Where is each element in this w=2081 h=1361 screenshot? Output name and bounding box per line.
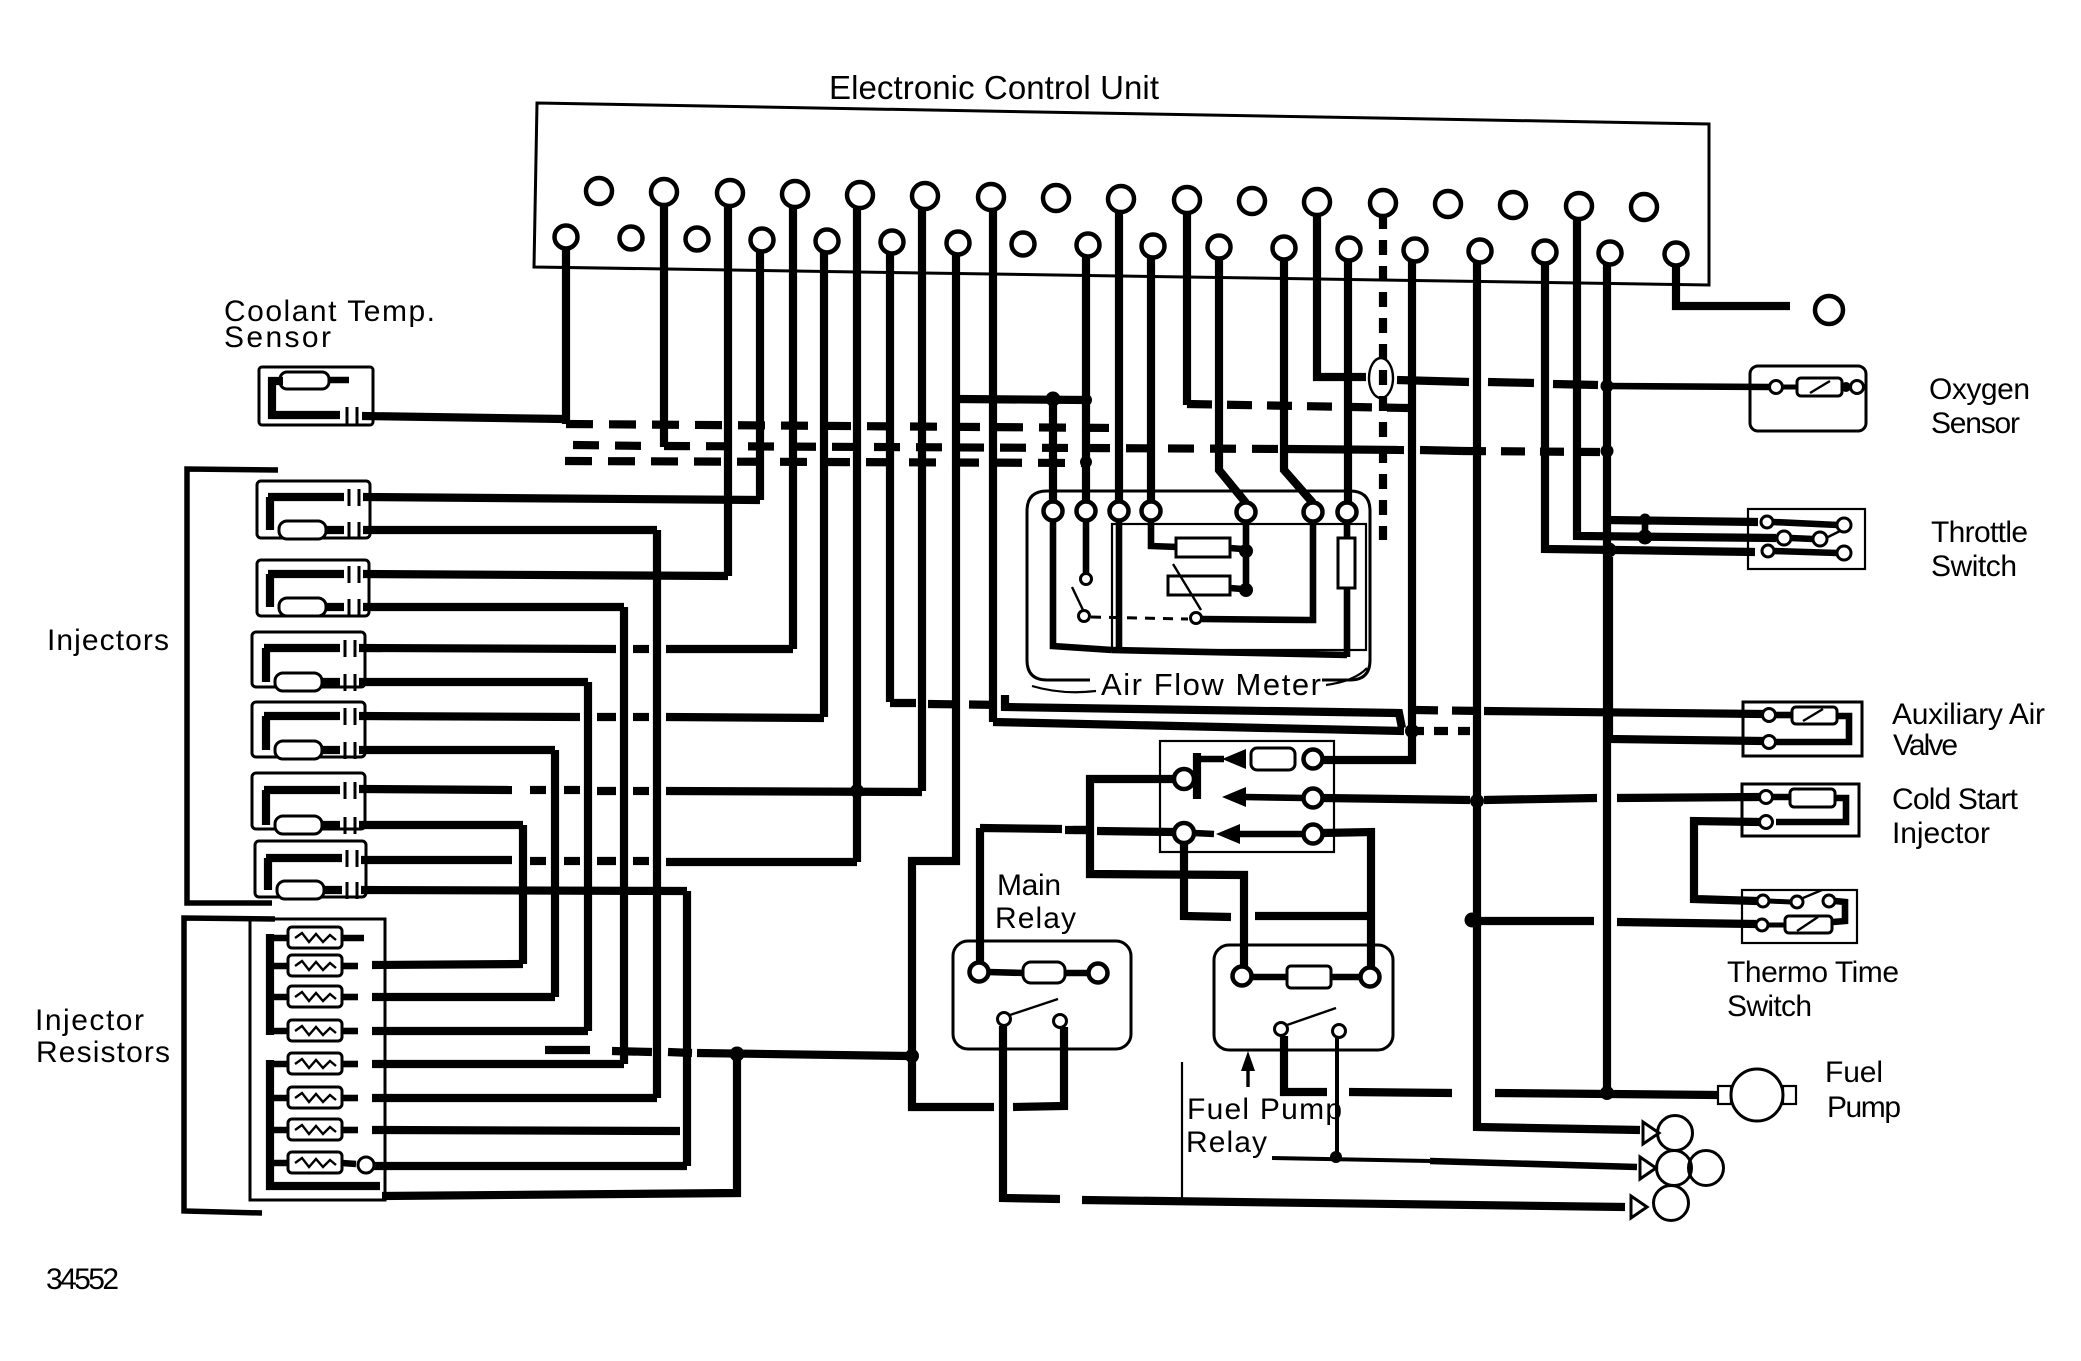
AFM internal: pin1 down leg [1053, 520, 1112, 650]
injector 6 box [255, 841, 366, 897]
aux valve pill slash [1803, 709, 1823, 721]
AFM internal: pill2 with wiper [1168, 576, 1230, 595]
thermo row1 pin [1757, 895, 1769, 907]
connector block below AFM (arrow box) [1160, 741, 1334, 852]
fuel pump relay coil right wire [1331, 974, 1362, 981]
thermo pill slash [1797, 917, 1818, 931]
throttle row2 wire [1791, 538, 1813, 539]
junction: dashed bus 447 end [1601, 445, 1614, 458]
AFM pin7 [1338, 503, 1357, 522]
oxygen sensor element pill [1797, 378, 1842, 396]
wire: ECU pin B10 riser to air flow meter pin4 [1147, 257, 1155, 502]
AFM pin2 [1077, 502, 1096, 521]
arrow box row3 arrow [1216, 824, 1240, 844]
wire: ECU pin T16 riser to throttle switch row2 [1577, 217, 1776, 538]
throttle row1 wire [1773, 522, 1838, 525]
wire: R4 row to injector3 drop [372, 1027, 588, 1035]
oxygen sensor pill slash [1810, 381, 1830, 393]
distribution circle 2 [1657, 1151, 1692, 1186]
svg-text:Resistors: Resistors [36, 1036, 170, 1069]
fuel pump relay box [1214, 945, 1393, 1050]
aux valve pin1 [1763, 709, 1776, 722]
arrowhead 1 [1643, 1122, 1659, 1144]
junction: AFM pin1 branch [1046, 392, 1061, 407]
arrow box row3 right circle [1304, 825, 1323, 844]
junction bus 463 at AFM pin2 riser [1080, 456, 1092, 468]
air flow meter outer box [1027, 491, 1370, 680]
wire: row2 to cold start injector row [1322, 797, 1760, 800]
thermo thick corner wire [1833, 901, 1845, 922]
wire: ECU pin T4 riser to injector3 top row [789, 207, 797, 649]
coolant temp sensor box [259, 367, 373, 425]
wire: dashed riser from ECU pin T13 [1379, 214, 1387, 540]
air flow meter inner box [1112, 524, 1366, 650]
fuel pump relay switch blade [1287, 1008, 1336, 1025]
dashed bus 463 [565, 461, 1083, 463]
wire: ECU pin B16 riser to throttle switch row3 [1545, 263, 1755, 552]
throttle row3 right contact [1837, 546, 1851, 560]
wire: ECU pin B4 riser to injector1 top row [756, 251, 764, 500]
dashed feed bus 1056 [545, 1050, 908, 1056]
AFM internal: pin5 column with junction dots [1243, 521, 1250, 592]
main relay coil right wire [1065, 970, 1090, 977]
resistor rail group 1 [266, 934, 274, 1035]
thermo element pill [1785, 916, 1832, 933]
fuel pump right nub [1783, 1086, 1796, 1104]
svg-text:Main: Main [997, 869, 1061, 902]
svg-text:Throttle: Throttle [1931, 516, 2028, 549]
junction: fuel pump feed line [1600, 1086, 1614, 1100]
svg-text:Relay: Relay [1186, 1126, 1267, 1159]
auxiliary air valve box [1743, 702, 1862, 756]
AFM internal: pin4 to pill1 [1151, 520, 1178, 547]
oxygen sensor right terminal [1851, 381, 1864, 394]
wire: main relay coil feed corner [980, 828, 1175, 832]
AFM pin5 [1237, 503, 1256, 522]
AFM internal: pin3 leg [1116, 520, 1123, 650]
svg-text:Injector: Injector [1892, 817, 1990, 850]
cold start internal U wire [1773, 794, 1790, 801]
wire: row3 arrow to circle [1238, 831, 1305, 838]
injector 4 box [252, 702, 365, 757]
wire: drop to resistor R8 row [683, 891, 691, 1166]
ECU pins top row [586, 178, 1657, 220]
oxygen sensor wire and dot [1783, 385, 1797, 390]
wire: aux bus solid to aux valve pin1 [1484, 711, 1763, 714]
wire: drop to resistor R2 [519, 825, 527, 964]
injector 2 box [257, 560, 369, 616]
wire: ECU pin T5 riser to injector6 top row [853, 208, 861, 862]
resistor R7 [270, 1119, 358, 1140]
wire: injector6 bottom row [361, 890, 687, 891]
AFM pin4 [1142, 502, 1161, 521]
junction: B14 riser with bus Q [1405, 724, 1419, 738]
resistor R5 [270, 1053, 358, 1074]
wire: resistor box feed drop [382, 1054, 737, 1196]
wire: ECU pin T12 riser with corner to loop [1317, 213, 1366, 377]
wire: ECU pin B12 riser with slant to AFM pin6 [1284, 259, 1313, 503]
wire: relay switch contact2 thin drop [1335, 1037, 1339, 1157]
AFM internal: wiper to pin6 [1202, 521, 1313, 620]
wire: ECU pin B6 riser to auxiliary air dashed bus [886, 253, 894, 702]
label: Air Flow Meter with leaders [1032, 686, 1096, 692]
wire: coolant internal rail [272, 381, 340, 415]
throttle row3 wire [1774, 551, 1838, 553]
injector 6 internals [264, 858, 272, 890]
throttle switch box [1748, 509, 1865, 569]
arrow box row1 element pill [1251, 748, 1295, 770]
thermo row2 pin [1756, 919, 1768, 931]
main relay box [953, 941, 1131, 1049]
svg-text:Sensor: Sensor [1931, 407, 2020, 440]
wire: R3 row to injector4 drop [372, 993, 555, 1001]
main relay switch blade [1010, 999, 1058, 1015]
svg-text:Cold Start: Cold Start [1892, 783, 2019, 816]
wire: ECU pin B13 riser to AFM pin7 [1344, 260, 1352, 503]
thick bus P below AFM [1005, 695, 1402, 728]
junction: T5 riser with injector5 row [850, 784, 864, 798]
throttle row2 right circle [1813, 532, 1827, 546]
wire: aux air valve row2 from throttle junction down [1609, 557, 1763, 741]
arrowhead 3 [1631, 1196, 1647, 1218]
wire: ECU pin T3 riser to injector2 top row [724, 206, 732, 576]
wire: ECU pin B1 riser to coolant bus [562, 249, 570, 424]
wire: row3 stub [1194, 833, 1214, 834]
oxygen sensor feed solid [1607, 386, 1772, 387]
wire: arrow box left pin down-route U [1184, 843, 1231, 917]
auxiliary air dashed bus [890, 699, 916, 707]
svg-text:Injector: Injector [35, 1004, 144, 1037]
junction: B15 riser with thermo row [1465, 913, 1480, 928]
wire: R7 row [372, 1130, 680, 1131]
wire: drop to resistor R3 [551, 750, 559, 997]
throttle row3 pin [1762, 545, 1774, 557]
injector 5 internals [262, 790, 270, 825]
injector 4 internals [262, 716, 270, 750]
cold start pin1 [1760, 791, 1773, 804]
dashed bus 405 right section [1187, 404, 1408, 408]
wire: row3 right corner down to fuel pump relay pin2 [1322, 832, 1371, 968]
fuel pump relay coil wire [1251, 974, 1289, 981]
wire: injector4 bottom row [359, 746, 555, 754]
svg-text:Fuel: Fuel [1825, 1056, 1883, 1089]
wire: row3 left dashed feed [1065, 826, 1090, 834]
wire: injector4 top row to ECU B5 riser [359, 716, 824, 718]
injector 2 internals [266, 574, 274, 607]
junction: bus 408 at AFM pin2 riser [1080, 394, 1092, 406]
fuel pump relay switch contact2 [1333, 1025, 1346, 1038]
oxygen sensor pin [1770, 381, 1783, 394]
resistor R3 [270, 986, 358, 1007]
terminal circle right of ECU [1815, 296, 1843, 324]
AFM internal: pin2 switch [1083, 520, 1090, 573]
junction: B15 riser with cold start row [1470, 794, 1484, 808]
dashed bus 447 main run [664, 446, 1288, 449]
junction: dashed bus 1056 at x912 [905, 1049, 919, 1063]
main relay pin1 [970, 963, 989, 982]
svg-text:Pump: Pump [1827, 1091, 1901, 1124]
injector 5 box [252, 773, 365, 829]
coolant sensor element pill [280, 372, 329, 389]
wire: coolant pill stub [329, 377, 349, 384]
AFM pin3 [1110, 502, 1129, 521]
svg-text:Oxygen: Oxygen [1929, 373, 2030, 406]
thermo row1 mid contact [1791, 896, 1803, 908]
fuel pump left nub [1718, 1086, 1731, 1104]
wire: ECU pin B9 riser to air flow meter pin2 [1082, 256, 1090, 502]
AFM pin6 [1304, 503, 1323, 522]
junction: throttle row2 [1638, 530, 1653, 545]
wire: short tie between throttle rows 1-2 [1642, 519, 1649, 537]
svg-text:Thermo Time: Thermo Time [1727, 956, 1899, 989]
wire: branch down to AFM pin1 [1049, 399, 1057, 502]
main relay pin2 [1089, 964, 1108, 983]
wire: drop to resistor R5 [620, 607, 628, 1064]
AFM internal: right vertical with pill [1344, 521, 1351, 540]
junction: resistor feed drop [730, 1047, 745, 1062]
wire: ECU pin T7 riser to thick bus Q [989, 210, 997, 722]
resistor R4 [270, 1020, 358, 1041]
arrow box row2 arrow [1222, 787, 1246, 807]
main relay switch contact1 [998, 1013, 1011, 1026]
injector 1 box [257, 481, 370, 538]
wire: bus 408 to AFM area [957, 399, 1086, 400]
wire: injector6 top row to ECU T5 riser [361, 860, 857, 862]
svg-text:Air Flow Meter: Air Flow Meter [1101, 667, 1321, 702]
bus Q dashed continuation [1410, 727, 1470, 735]
wire: R8 row to injector6 drop [374, 1162, 687, 1170]
distribution circle 3 [1689, 1151, 1724, 1186]
wire: row2 arrow to circle [1244, 797, 1305, 798]
fuel pump relay pin2 [1361, 968, 1380, 987]
AFM internal: dashed link to wiper [1091, 617, 1188, 619]
wire: relay switch pin2 under-route right part [1013, 1027, 1064, 1107]
ECU box (Electronic Control Unit) [534, 103, 1709, 285]
arrow box row1 circle [1304, 750, 1323, 769]
connector ticks coolant [346, 407, 349, 424]
arrow box row2 circle [1304, 789, 1323, 808]
wire: injector1 top row to ECU B4 riser [363, 497, 760, 500]
wire: ECU pin B7 riser down with jog to relay feed [912, 254, 956, 1057]
resistor rail group 2 [270, 1060, 380, 1186]
AFM pin1 [1044, 502, 1063, 521]
thermo switch blade [1803, 890, 1822, 898]
arrow box row3 left circle [1174, 823, 1194, 843]
cold start pin2 [1760, 816, 1773, 829]
wire: injector2 top row to ECU T3 riser [363, 574, 728, 576]
wire: cold start pin2 U-route to thermo pin1 [1694, 821, 1760, 901]
bottom bus to circles arrow3 [1082, 1200, 1625, 1207]
wire: switch contact1 drop to bottom bus [1003, 1026, 1060, 1199]
wire: injector5 bottom row [359, 821, 523, 829]
thermo row2 wire [1768, 923, 1786, 928]
AFM internal: bottom bus [1112, 650, 1347, 655]
wire: row1 arrow stub to left rail [1199, 756, 1224, 763]
wire: fuel pump feed line segments [1349, 1092, 1718, 1095]
wire: ECU pin T6 riser to injector5 top row [918, 209, 926, 791]
wire: injector5 top row to ECU T6 riser [359, 789, 922, 792]
thin line to circles arrow2 [1272, 1158, 1430, 1161]
svg-text:Relay: Relay [995, 902, 1076, 935]
wire: ECU pin B14 riser down to arrow box row1 [1322, 261, 1412, 760]
wire: ECU pin B15 riser down to fuel pump circles arrow1 [1477, 261, 1640, 1130]
injector 3 box [252, 632, 365, 687]
wire: drop to resistor R6 [653, 530, 661, 1098]
cold start element pill [1790, 789, 1835, 807]
label pointer arrow to relay box [1246, 1058, 1249, 1087]
oxygen sensor feed dashed part [1397, 380, 1598, 385]
resistor R2 [270, 955, 358, 976]
junction: throttle row1 tie [1640, 514, 1651, 525]
thick bus Q below AFM [993, 722, 1404, 731]
junction on thin line [1330, 1151, 1342, 1163]
thermo row1 wire [1769, 901, 1791, 902]
resistor R1 [270, 927, 364, 948]
injector resistors box [250, 919, 385, 1200]
wire: ECU pin B11 riser with slant to AFM pin5 [1219, 258, 1246, 503]
wire: injector1 bottom row [363, 526, 657, 534]
svg-text:Electronic Control Unit: Electronic Control Unit [829, 69, 1159, 106]
oxygen sensor box [1750, 366, 1866, 431]
arrowhead 2 [1640, 1157, 1656, 1179]
resistor R6 [270, 1087, 358, 1108]
wire: ECU pin B18 riser corner right [1676, 265, 1790, 306]
fuel pump relay pin1 [1233, 967, 1252, 986]
svg-text:Switch: Switch [1931, 550, 2017, 583]
aux valve internal U wire [1776, 712, 1792, 719]
fuel pump relay coil pill [1287, 966, 1331, 988]
aux valve pin2 [1763, 736, 1776, 749]
dashed bus 447 left stub [573, 445, 650, 446]
injector 3 internals [262, 648, 270, 682]
aux valve element pill [1792, 707, 1837, 724]
loop symbol on dashed riser [1369, 358, 1393, 398]
distribution circle 1 [1658, 1116, 1693, 1151]
bus 447 solid section [1288, 449, 1404, 450]
distribution circle 4 [1654, 1186, 1689, 1221]
svg-text:Auxiliary Air: Auxiliary Air [1892, 698, 2045, 731]
wire: B7 lower route to main relay switch pin2 [912, 1053, 994, 1107]
arrow box row1 arrow [1222, 749, 1246, 769]
wire: injector3 bottom row [359, 678, 588, 686]
wire: injector3 top row to ECU T4 riser [359, 648, 793, 649]
auxiliary air dashed bus right section [1416, 710, 1480, 711]
throttle switch blade [1824, 531, 1840, 539]
wire: left pin feed [1093, 775, 1174, 783]
wire: ECU pin B5 riser to injector4 top row [820, 252, 828, 717]
injector resistors bracket [184, 918, 275, 1213]
junction: throttle row3 [1602, 543, 1617, 558]
arrow box left pin circle [1174, 769, 1194, 789]
svg-text:Injectors: Injectors [47, 624, 169, 657]
junction: oxygen feed on B17 riser [1601, 380, 1614, 393]
label leader vertical [1181, 1062, 1183, 1205]
fuel pump circle [1731, 1069, 1783, 1121]
svg-text:Switch: Switch [1727, 990, 1812, 1023]
wire: R2 row to injector5 drop [372, 964, 523, 965]
wire: ECU pin T2 riser to dashed bus 447 [660, 205, 668, 447]
main relay coil pill [1023, 962, 1065, 983]
thermo right contact [1823, 895, 1835, 907]
main relay switch contact2 [1054, 1015, 1067, 1028]
throttle row1 pin [1761, 516, 1773, 528]
wire: ECU pin T9 riser to air flow meter pin3 [1115, 211, 1123, 502]
ECU pins bottom row [555, 226, 1688, 266]
wire: R5 row to injector2 drop [372, 1060, 624, 1068]
wire: coolant sensor output to ECU riser [362, 416, 564, 419]
svg-text:Fuel Pump: Fuel Pump [1187, 1093, 1342, 1126]
wire: throttle switch row1 feed [1607, 520, 1758, 522]
throttle row2 left circle [1777, 531, 1791, 545]
wire: injector2 bottom row [363, 603, 624, 611]
terminal circle R8 [358, 1157, 374, 1173]
fuel pump relay switch contact1 [1275, 1023, 1288, 1036]
dashed bus 425 from coolant riser to AFM pin3 [566, 424, 1116, 428]
wire: ECU pin T10 riser to dashed bus 405 [1183, 211, 1191, 405]
wire: drop to resistor R4 [584, 682, 592, 1031]
wire: relay switch to fuel pump line [1284, 1036, 1327, 1092]
arrow box left rail [1193, 753, 1201, 799]
wire: U route right segment [1255, 912, 1367, 920]
thermo time switch box [1742, 890, 1857, 943]
wire: feed drop to fuel pump relay pin1 [1090, 779, 1244, 968]
injectors bracket [187, 469, 278, 903]
cold start injector box [1742, 784, 1859, 836]
throttle row1 right contact [1837, 518, 1851, 532]
wire: ECU pin B17 riser long down to fuel pump line [1603, 264, 1611, 1094]
bus 447 right dashed section [1462, 451, 1600, 452]
svg-text:Valve: Valve [1893, 729, 1958, 762]
resistor R8 [270, 1152, 356, 1173]
main relay coil wire [988, 972, 1025, 973]
wire: thermo row2 long feed [1470, 921, 1756, 924]
svg-text:34552: 34552 [46, 1263, 119, 1296]
injector 1 internals [266, 497, 274, 530]
wire: R6 row to injector1 drop [372, 1094, 657, 1102]
svg-text:Sensor: Sensor [224, 321, 331, 354]
